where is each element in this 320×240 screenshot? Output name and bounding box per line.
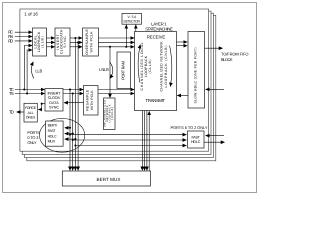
wire INSERT sync to FORCE ALL ONES [38, 104, 45, 110]
block PORT RAM [117, 52, 131, 89]
wires LLB to INSERT sync [47, 37, 55, 39]
svg-text:RESAMPLE: RESAMPLE [85, 89, 89, 111]
svg-text:LNLB: LNLB [99, 67, 109, 72]
svg-text:PORT RAM: PORT RAM [120, 61, 125, 80]
svg-text:HDLC: HDLC [48, 134, 57, 138]
wire loopback from TS line to LLB input 5 [27, 50, 32, 94]
svg-text:0 TO 3: 0 TO 3 [27, 135, 38, 140]
stub wires into BERT/FAST mux [65, 127, 70, 129]
block INSERT CLOCK/DATA SYNC (receive) [55, 28, 70, 56]
block V.54 DETECTOR [122, 14, 142, 25]
block LOCAL LOOPBACK (LLB) [33, 28, 47, 56]
svg-text:FORCE: FORCE [25, 106, 37, 110]
svg-text:(LLB): (LLB) [41, 36, 45, 48]
svg-text:RECEIVE: RECEIVE [147, 35, 166, 40]
svg-text:SYNC: SYNC [63, 36, 67, 48]
svg-text:OVERSAMPLE: OVERSAMPLE [85, 29, 89, 55]
bundle TRANSMIT to BERT MUX wire 1 [141, 111, 143, 171]
signal TS [9, 91, 45, 96]
wire V54 tap 2 [135, 25, 137, 32]
stacked frame 3 [25, 13, 214, 157]
svg-text:DATA: DATA [49, 101, 59, 105]
stacked frame 1 front [20, 9, 209, 151]
wires TC/TS rows mid segment [63, 89, 83, 91]
bundle wire 4 up into TRANSMIT [148, 111, 150, 171]
signal RD [8, 38, 32, 43]
signal RS [8, 34, 32, 39]
wires OVERSAMPLE to RECEIVE [99, 37, 135, 39]
svg-text:SYNC: SYNC [49, 106, 59, 110]
block FAST HDLC [188, 131, 205, 148]
block SLOW HDLC (ONE PER PORT) [188, 32, 205, 109]
svg-text:LOOPBACK (CNLB): LOOPBACK (CNLB) [164, 46, 168, 88]
wire FAST HDLC to FIFO [204, 141, 225, 143]
svg-text:INSERT: INSERT [48, 92, 62, 96]
svg-text:CLOCK/: CLOCK/ [48, 96, 61, 100]
wire down to UNLB [109, 47, 111, 98]
bundle wire A [74, 38, 76, 170]
arc CNLB loop [170, 46, 172, 87]
svg-text:DETECTOR: DETECTOR [123, 20, 140, 24]
block BERT MUX [62, 171, 150, 186]
svg-text:TS: TS [9, 91, 14, 96]
svg-text:WITH PCLK: WITH PCLK [90, 90, 94, 111]
svg-text:ONLY: ONLY [27, 140, 37, 145]
arc LNLB loop with label [110, 62, 113, 79]
bundle wire B [77, 42, 79, 170]
signal TC [9, 87, 45, 92]
svg-text:RD: RD [8, 38, 13, 43]
svg-text:1 of 16: 1 of 16 [24, 12, 38, 17]
block OVERSAMPLE WITH PCLK [83, 28, 99, 56]
bundle wire 3 [146, 111, 148, 171]
wire SLOW HDLC to FIFO [205, 47, 223, 49]
wire RESAMPLE to INSERT sync [64, 102, 84, 104]
stacked frame 2 [22, 11, 211, 154]
arc CLLB loop [138, 45, 140, 83]
block UNCHANNELIZED NETWORK LOOPBACK [103, 98, 115, 130]
node bundle joins [69, 88, 71, 90]
arc LLB loop with label [31, 62, 33, 79]
svg-text:TRANSMIT: TRANSMIT [146, 98, 166, 103]
bundle wire C [69, 90, 71, 171]
svg-text:PORTS 6 TO 2 ONLY: PORTS 6 TO 2 ONLY [171, 125, 208, 130]
node tap A [74, 37, 76, 39]
svg-text:(UNLB): (UNLB) [111, 107, 114, 120]
outer page border [3, 3, 257, 193]
svg-text:ALL: ALL [28, 111, 34, 115]
wires to FAST HDLC [70, 134, 186, 136]
node tap to UNLB [109, 46, 111, 48]
svg-text:HDLC: HDLC [191, 140, 201, 144]
wire loopback from TC line to LLB input 4 [24, 46, 32, 90]
svg-text:LLB: LLB [35, 69, 42, 74]
svg-text:TD: TD [9, 110, 14, 115]
svg-text:SLOW HDLC (ONE PER PORT): SLOW HDLC (ONE PER PORT) [194, 48, 198, 104]
bundle wire 2 [144, 111, 146, 171]
node tap B [77, 41, 79, 43]
svg-text:BERT/: BERT/ [48, 124, 58, 128]
wires RECEIVE to SLOW HDLC [177, 41, 188, 43]
wires INSERT sync to OVERSAMPLE [70, 37, 82, 39]
block LAYER1 RECEIVE/TRANSMIT [135, 32, 177, 111]
wire V54 tap 1 [125, 25, 127, 47]
block BERT/FAST HDLC MUX [46, 121, 64, 146]
svg-text:FAST: FAST [191, 136, 200, 140]
signal RC [8, 30, 32, 35]
svg-text:ONES: ONES [26, 115, 36, 119]
block INSERT CLOCK/DATA SYNC (transmit) [45, 89, 63, 112]
svg-text:MUX: MUX [48, 139, 56, 143]
svg-text:FAST: FAST [48, 129, 57, 133]
node tap to V54 [125, 46, 127, 48]
wires rows to TRANSMIT [98, 89, 134, 91]
svg-text:TO/FROM FIFO: TO/FROM FIFO [221, 52, 249, 57]
svg-text:BLOCK: BLOCK [221, 57, 233, 62]
ellipse BERT group [40, 118, 85, 152]
wire FIFO to FAST HDLC [206, 135, 224, 137]
bundle wire D [72, 94, 74, 171]
svg-text:BERT MUX: BERT MUX [97, 177, 121, 182]
svg-text:WITH PCLK: WITH PCLK [90, 31, 94, 53]
stacked frame 4 (back) [27, 15, 216, 161]
wire FIFO to SLOW HDLC [206, 88, 224, 90]
svg-text:V.54: V.54 [127, 15, 136, 19]
svg-text:STATE MACHINE: STATE MACHINE [145, 26, 173, 31]
block FORCE ALL ONES [24, 103, 37, 122]
block RESAMPLE WITH PCLK [84, 86, 99, 116]
svg-text:(CLLB): (CLLB) [148, 60, 152, 74]
wire SLOW HDLC to TRANSMIT [177, 95, 188, 97]
signal TD output [9, 110, 24, 115]
